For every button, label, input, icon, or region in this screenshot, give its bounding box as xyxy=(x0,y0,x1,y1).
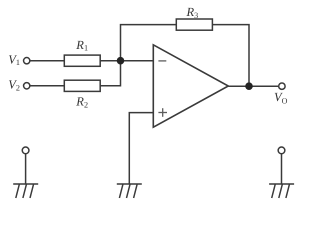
svg-text:V2: V2 xyxy=(8,78,20,93)
op-amp plus sign xyxy=(158,112,167,114)
wire op-amp + input to ground xyxy=(129,113,153,184)
wire V2 to R2 xyxy=(30,85,64,87)
resistor R2 xyxy=(64,80,100,91)
resistor R3 xyxy=(176,19,212,30)
ground G2 xyxy=(117,184,142,198)
terminal V1 xyxy=(24,58,30,64)
terminal V2 xyxy=(24,83,30,89)
wire op-amp output xyxy=(228,85,278,87)
wire R2 riser to feedback xyxy=(100,25,176,86)
wire node A to op-amp inverting input xyxy=(121,60,154,62)
svg-text:VO: VO xyxy=(274,90,288,105)
ground G1 xyxy=(13,147,38,198)
ground G3 xyxy=(269,147,294,198)
svg-text:R2: R2 xyxy=(75,95,88,110)
op-amp minus sign xyxy=(158,60,166,62)
svg-text:V1: V1 xyxy=(8,53,20,68)
resistor R1 xyxy=(64,55,100,66)
terminal VO xyxy=(279,83,285,89)
wire R1 to node A xyxy=(100,60,120,62)
op-amp U1 xyxy=(153,45,228,127)
wire R3 to output riser xyxy=(212,25,249,87)
node A junction dot xyxy=(117,57,125,65)
svg-text:R3: R3 xyxy=(186,5,199,20)
wire V1 to R1 xyxy=(30,60,64,62)
output node dot xyxy=(245,82,253,90)
svg-text:R1: R1 xyxy=(75,38,88,53)
